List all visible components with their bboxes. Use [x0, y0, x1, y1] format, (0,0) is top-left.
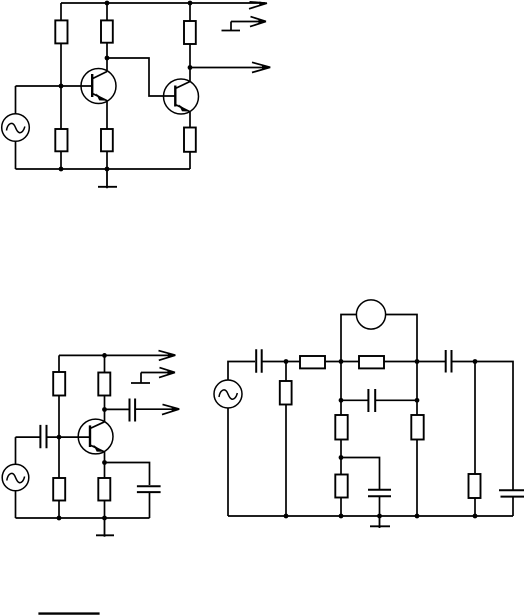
- wire C7 to right edge: [452, 362, 514, 491]
- resistor R6: [184, 128, 196, 152]
- wire top supply rail: [61, 2, 265, 4]
- wire base input: [16, 436, 41, 438]
- wire emitter Q3 to node: [104, 452, 106, 463]
- wire R17 to bottom rail: [474, 498, 476, 516]
- node S: [339, 455, 344, 460]
- wire C2 to output arrow: [135, 408, 177, 410]
- wire R1 to base node: [60, 43, 62, 86]
- wire R15 to bottom rail: [340, 498, 342, 517]
- wire coupling to base Q2: [107, 58, 175, 96]
- wire base Q1: [16, 85, 92, 87]
- node W (rail / ground): [377, 514, 382, 519]
- node P (mid node right): [415, 359, 420, 364]
- resistor R14 (left vertical): [335, 415, 347, 440]
- step waveform symbol with arrow: [131, 373, 173, 384]
- wire feedback line right: [375, 399, 417, 401]
- output arrow (top rail): [159, 351, 176, 361]
- resistor R4: [101, 129, 113, 151]
- wire R5 to collector node Q2: [189, 44, 191, 68]
- node Y (rail / R17): [473, 514, 478, 519]
- wire node P down: [416, 362, 418, 416]
- step waveform symbol with arrow: [222, 22, 265, 31]
- wire C4 to R12: [262, 361, 301, 363]
- wire top rail to R2: [106, 3, 108, 21]
- wire left rail upper: [60, 3, 62, 21]
- node I (base divider): [57, 435, 62, 440]
- wire emitter node to bypass cap: [105, 463, 150, 486]
- wire collector node to coupling cap: [105, 408, 130, 410]
- node X (rail / R16): [415, 514, 420, 519]
- resistor R3: [55, 129, 67, 151]
- wire input node to R11: [285, 362, 287, 382]
- wire collector node to Q2: [189, 68, 191, 82]
- wire collector node to Q1: [106, 58, 108, 72]
- wire source top to main line: [228, 362, 255, 381]
- output arrow (top rail): [249, 2, 267, 9]
- capacitor C7 (output coupling): [446, 350, 452, 373]
- wire C1 to base Q3: [47, 436, 91, 438]
- resistor R5: [184, 21, 196, 44]
- node H (top rail / R8): [102, 353, 107, 358]
- resistor R8: [98, 373, 110, 396]
- wire G1 right arm: [386, 315, 417, 362]
- wire bottom rail: [16, 168, 191, 170]
- wire base node to R9: [58, 437, 60, 478]
- node J (collector Q3 / output): [102, 407, 107, 412]
- wire emitter node to R10: [104, 463, 106, 479]
- wire node S to R15: [340, 458, 342, 475]
- wire C8 to bottom rail: [512, 497, 514, 516]
- resistor R2: [101, 20, 113, 42]
- wire R10 to bottom rail: [104, 501, 106, 519]
- wire R2 to collector node: [106, 43, 108, 58]
- wire R9 to bottom rail: [58, 501, 60, 519]
- capacitor C1 (input coupling): [40, 425, 46, 448]
- resistor R10: [98, 478, 110, 501]
- wire bottom rail: [228, 515, 513, 517]
- wire R14 to node S: [340, 440, 342, 458]
- ground: [98, 169, 117, 188]
- wire R4 to bottom rail: [106, 151, 108, 169]
- wire base node to R3: [60, 86, 62, 129]
- wire feedback line left: [341, 399, 368, 401]
- node K (emitter): [102, 460, 107, 465]
- wire C3 to bottom rail: [149, 492, 151, 518]
- resistor R11 (shunt): [280, 381, 292, 405]
- wire node O down: [340, 362, 342, 416]
- ground: [96, 518, 114, 537]
- transistor Q1: [81, 69, 116, 104]
- node F (top rail / R5): [188, 1, 193, 6]
- wire C6 to bottom rail: [379, 496, 381, 516]
- node E (collector Q1): [105, 56, 110, 61]
- node A (base Q1 / divider): [59, 84, 64, 89]
- node C (bottom rail ground): [105, 167, 110, 172]
- resistor R13 (series, horizontal): [359, 356, 384, 368]
- node T (load node): [473, 359, 478, 364]
- resistor R7: [53, 372, 65, 396]
- wire top rail to R5: [189, 3, 191, 21]
- capacitor C2 (output coupling): [130, 399, 136, 422]
- wire node S to bypass cap: [341, 458, 380, 490]
- wire emitter Q2 to R6: [189, 112, 191, 128]
- resistor R15: [335, 475, 347, 498]
- wire R13 to node P: [384, 361, 445, 363]
- resistor R16 (right vertical): [411, 415, 423, 440]
- output arrow (collector Q2): [252, 62, 270, 72]
- wire node T down to R17: [474, 362, 476, 475]
- wire source bottom: [15, 491, 17, 518]
- output arrow (after C2): [162, 404, 179, 414]
- wire source top: [15, 437, 17, 464]
- wire source bottom: [15, 141, 17, 169]
- capacitor C4 (input coupling): [256, 349, 262, 373]
- node Q (feedback line left): [339, 398, 344, 403]
- wire bottom rail: [16, 517, 150, 519]
- resistor R1: [55, 20, 67, 43]
- wire R16 to bottom rail: [416, 440, 418, 517]
- node L (bottom rail left): [57, 516, 62, 521]
- node R (feedback line right): [415, 398, 420, 403]
- wire R12 to node O: [325, 361, 359, 363]
- source V3: [214, 380, 242, 408]
- wire R6 to bottom rail: [189, 152, 191, 170]
- source V1: [2, 114, 30, 142]
- wire top supply rail: [59, 355, 173, 372]
- wire top rail to R8: [104, 355, 106, 372]
- node D (top rail / R2): [105, 1, 110, 6]
- wire output: [190, 67, 268, 69]
- wire emitter Q1 to R4: [106, 101, 108, 129]
- wire R3 to bottom rail: [60, 151, 62, 169]
- wire R11 to bottom rail: [285, 405, 287, 517]
- node B (bottom rail left): [59, 167, 64, 172]
- generator G1 (top circle): [356, 300, 385, 329]
- resistor R17 (load): [469, 474, 481, 498]
- wire R8 to collector node: [104, 396, 106, 410]
- wire R7 to base node: [58, 396, 60, 438]
- wire source top: [15, 86, 17, 114]
- node M (bottom rail ground): [102, 516, 107, 521]
- wire G1 left arm: [341, 315, 356, 362]
- transistor Q2: [164, 79, 199, 114]
- transistor Q3: [78, 419, 113, 454]
- wire source bottom: [227, 408, 229, 516]
- capacitor C5 (feedback): [368, 389, 375, 412]
- node N (input node): [284, 359, 289, 364]
- ground: [370, 516, 390, 528]
- resistor R12 (series, horizontal): [300, 356, 325, 368]
- capacitor C3 (emitter bypass): [137, 486, 161, 492]
- resistor R9: [53, 478, 65, 501]
- node V (rail / R15): [339, 514, 344, 519]
- node O (mid node left): [339, 359, 344, 364]
- wire (partial table rule at page bottom): [38, 612, 99, 614]
- capacitor C8 (right, clipped at edge): [499, 490, 524, 496]
- wire collector entry Q3: [104, 410, 106, 422]
- node G (collector Q2 / output): [188, 65, 193, 70]
- node U (rail / R11): [284, 514, 289, 519]
- capacitor C6 (bypass): [368, 490, 391, 497]
- source V2: [2, 464, 29, 491]
